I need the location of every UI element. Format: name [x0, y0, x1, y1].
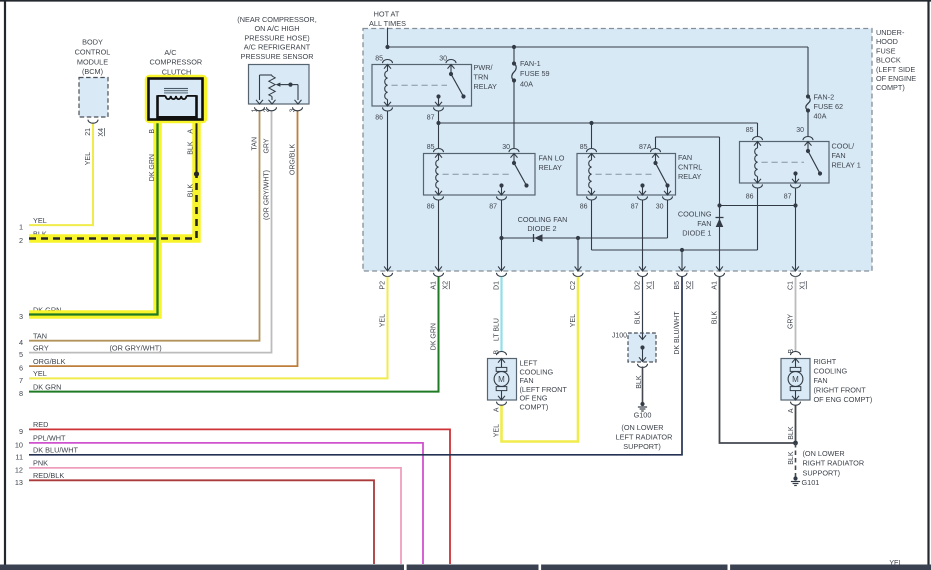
svg-text:86: 86 [427, 204, 435, 211]
svg-text:(ON LOWER: (ON LOWER [621, 423, 663, 432]
svg-text:DK BLU/WHT: DK BLU/WHT [33, 446, 79, 455]
svg-text:DIODE 1: DIODE 1 [682, 229, 711, 238]
svg-text:RED/BLK: RED/BLK [33, 471, 64, 480]
svg-text:5: 5 [19, 350, 23, 359]
svg-text:A/C: A/C [164, 48, 176, 57]
svg-text:(NEAR COMPRESSOR,: (NEAR COMPRESSOR, [237, 15, 316, 24]
svg-text:DK GRN: DK GRN [149, 154, 156, 181]
svg-text:FAN: FAN [832, 151, 846, 160]
svg-text:G100: G100 [634, 411, 652, 420]
svg-text:BLK: BLK [788, 451, 795, 465]
svg-text:COOLING: COOLING [814, 367, 848, 376]
svg-text:40A: 40A [814, 112, 827, 121]
svg-text:21: 21 [85, 128, 92, 136]
svg-text:DK GRN: DK GRN [430, 323, 437, 350]
svg-text:FAN LO: FAN LO [539, 154, 565, 163]
svg-text:OF ENG COMPT): OF ENG COMPT) [814, 395, 873, 404]
svg-text:GRY: GRY [787, 314, 794, 329]
svg-text:(LEFT SIDE: (LEFT SIDE [876, 65, 915, 74]
svg-text:TRN: TRN [474, 73, 489, 82]
svg-text:P2: P2 [379, 281, 386, 290]
svg-text:BODY: BODY [82, 38, 103, 47]
svg-text:1: 1 [251, 108, 258, 112]
svg-text:MODULE: MODULE [77, 57, 108, 66]
svg-text:GRY: GRY [263, 138, 270, 153]
svg-text:87A: 87A [639, 144, 652, 151]
svg-text:BLOCK: BLOCK [876, 56, 901, 65]
svg-text:30: 30 [796, 127, 804, 134]
svg-text:X2: X2 [443, 281, 450, 290]
svg-text:BLK: BLK [788, 426, 795, 440]
svg-text:D1: D1 [493, 281, 500, 290]
svg-text:7: 7 [19, 376, 23, 385]
svg-text:X1: X1 [800, 281, 807, 290]
svg-text:COMPT): COMPT) [520, 402, 549, 411]
svg-text:30: 30 [656, 204, 664, 211]
svg-text:2: 2 [263, 108, 270, 112]
svg-text:3: 3 [289, 108, 296, 112]
svg-text:BLK: BLK [634, 311, 641, 325]
svg-text:YEL: YEL [570, 314, 577, 327]
svg-text:ALL TIMES: ALL TIMES [369, 19, 406, 28]
svg-text:FUSE: FUSE [876, 46, 896, 55]
svg-text:6: 6 [19, 364, 23, 373]
svg-text:FAN: FAN [520, 376, 534, 385]
svg-text:COOL/: COOL/ [832, 142, 856, 151]
svg-text:87: 87 [427, 115, 435, 122]
svg-text:2: 2 [19, 236, 23, 245]
svg-text:FAN: FAN [678, 153, 692, 162]
svg-text:PPL/WHT: PPL/WHT [33, 434, 66, 443]
svg-text:X1: X1 [647, 281, 654, 290]
svg-text:OF ENGINE: OF ENGINE [876, 74, 916, 83]
svg-text:PNK: PNK [33, 459, 48, 468]
svg-text:SUPPORT): SUPPORT) [803, 468, 841, 477]
svg-text:10: 10 [15, 440, 23, 449]
svg-text:(BCM): (BCM) [82, 67, 103, 76]
svg-text:PRESSURE SENSOR: PRESSURE SENSOR [241, 52, 314, 61]
svg-text:ORG/BLK: ORG/BLK [289, 144, 296, 175]
svg-text:RED: RED [33, 420, 48, 429]
svg-text:SUPPORT): SUPPORT) [623, 442, 661, 451]
svg-text:A1: A1 [711, 281, 718, 290]
svg-text:A1: A1 [430, 281, 437, 290]
svg-text:TAN: TAN [251, 137, 258, 150]
svg-text:12: 12 [15, 465, 23, 474]
svg-text:A/C REFRIGERANT: A/C REFRIGERANT [244, 43, 311, 52]
svg-text:FUSE 62: FUSE 62 [814, 102, 844, 111]
svg-text:B5: B5 [674, 281, 681, 290]
svg-text:85: 85 [375, 56, 383, 63]
svg-text:A: A [494, 407, 501, 412]
svg-text:30: 30 [502, 144, 510, 151]
svg-text:FUSE 59: FUSE 59 [520, 69, 550, 78]
svg-text:PRESSURE HOSE): PRESSURE HOSE) [244, 33, 309, 42]
svg-text:B: B [494, 350, 501, 355]
svg-text:DK BLU/WHT: DK BLU/WHT [674, 311, 681, 355]
svg-text:87: 87 [489, 204, 497, 211]
svg-text:86: 86 [375, 115, 383, 122]
svg-text:UNDER-: UNDER- [876, 28, 905, 37]
svg-text:FAN: FAN [697, 219, 711, 228]
svg-text:C2: C2 [570, 281, 577, 290]
svg-text:40A: 40A [520, 80, 533, 89]
svg-text:RELAY: RELAY [678, 172, 702, 181]
svg-text:85: 85 [746, 127, 754, 134]
svg-text:COOLING: COOLING [678, 210, 712, 219]
svg-text:DK GRN: DK GRN [33, 382, 61, 391]
svg-text:A: A [188, 129, 195, 134]
svg-text:YEL: YEL [494, 424, 501, 437]
svg-text:X2: X2 [686, 281, 693, 290]
svg-text:(OR GRY/WHT): (OR GRY/WHT) [263, 170, 270, 220]
svg-text:RIGHT: RIGHT [814, 357, 837, 366]
svg-text:COOLING: COOLING [520, 367, 554, 376]
svg-text:COOLING FAN: COOLING FAN [518, 215, 568, 224]
svg-text:86: 86 [580, 204, 588, 211]
svg-text:RIGHT RADIATOR: RIGHT RADIATOR [803, 459, 865, 468]
svg-text:C1: C1 [787, 281, 794, 290]
svg-text:M: M [792, 375, 799, 384]
svg-text:BLK: BLK [188, 184, 195, 198]
svg-text:YEL: YEL [85, 152, 92, 165]
svg-text:BLK: BLK [711, 311, 718, 325]
svg-text:BLK: BLK [188, 141, 195, 155]
svg-text:G101: G101 [802, 478, 820, 487]
svg-text:OF ENG: OF ENG [520, 394, 548, 403]
svg-text:YEL: YEL [33, 216, 47, 225]
svg-text:13: 13 [15, 478, 23, 487]
svg-text:HOT AT: HOT AT [374, 10, 400, 19]
svg-text:ORG/BLK: ORG/BLK [33, 357, 66, 366]
svg-text:85: 85 [427, 144, 435, 151]
svg-text:DIODE 2: DIODE 2 [527, 224, 556, 233]
svg-text:TAN: TAN [33, 332, 47, 341]
svg-text:A: A [788, 408, 795, 413]
svg-text:11: 11 [15, 452, 23, 461]
svg-text:B: B [149, 129, 156, 134]
svg-text:M: M [498, 375, 505, 384]
svg-text:9: 9 [19, 427, 23, 436]
svg-text:LEFT RADIATOR: LEFT RADIATOR [616, 433, 673, 442]
svg-text:COMPRESSOR: COMPRESSOR [149, 58, 202, 67]
svg-text:J100: J100 [612, 333, 627, 340]
svg-text:LEFT: LEFT [520, 359, 538, 368]
svg-text:FAN-1: FAN-1 [520, 59, 541, 68]
svg-text:CONTROL: CONTROL [75, 47, 111, 56]
svg-text:(ON LOWER: (ON LOWER [803, 449, 845, 458]
svg-text:(RIGHT FRONT: (RIGHT FRONT [814, 386, 867, 395]
svg-text:D2: D2 [634, 281, 641, 290]
svg-text:HOOD: HOOD [876, 37, 898, 46]
svg-text:87: 87 [784, 194, 792, 201]
svg-text:COMPT): COMPT) [876, 83, 905, 92]
svg-text:(OR GRY/WHT): (OR GRY/WHT) [110, 343, 162, 352]
svg-text:LT BLU: LT BLU [493, 318, 500, 341]
svg-text:87: 87 [631, 204, 639, 211]
svg-text:4: 4 [19, 338, 23, 347]
svg-text:FAN: FAN [814, 376, 828, 385]
svg-text:X4: X4 [98, 128, 105, 137]
svg-text:RELAY: RELAY [539, 163, 563, 172]
svg-text:RELAY: RELAY [474, 82, 498, 91]
svg-text:85: 85 [580, 144, 588, 151]
svg-text:1: 1 [19, 223, 23, 232]
svg-text:PWR/: PWR/ [474, 63, 494, 72]
svg-text:GRY: GRY [33, 343, 49, 352]
svg-text:YEL: YEL [379, 314, 386, 327]
svg-text:(LEFT FRONT: (LEFT FRONT [520, 385, 568, 394]
svg-text:8: 8 [19, 389, 23, 398]
svg-text:86: 86 [746, 194, 754, 201]
svg-text:YEL: YEL [33, 369, 47, 378]
svg-text:3: 3 [19, 312, 23, 321]
svg-text:RELAY 1: RELAY 1 [832, 161, 861, 170]
svg-text:CNTRL: CNTRL [678, 163, 702, 172]
svg-text:FAN-2: FAN-2 [814, 93, 835, 102]
svg-text:ON A/C HIGH: ON A/C HIGH [254, 24, 299, 33]
